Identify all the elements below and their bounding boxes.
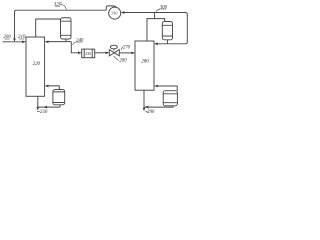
svg-text:220: 220 [33, 62, 41, 67]
condenser vessel (left) [61, 18, 72, 39]
wire reboiler vapor return to column 220 [48, 86, 59, 90]
node liquid arrow (left) [43, 106, 47, 109]
node feed arrow into column 220 [22, 41, 26, 44]
svg-text:290: 290 [147, 110, 155, 115]
leader for 270 [121, 47, 123, 51]
leader for 240 [73, 42, 77, 45]
svg-text:240: 240 [76, 38, 84, 43]
wire reboiler vapor return to column 280 [158, 86, 178, 91]
node arrow into column 280 [131, 52, 135, 55]
node arrow into feed junction [13, 38, 16, 41]
node reflux arrow into column 220 [45, 41, 49, 44]
leader for 290 [145, 110, 148, 113]
reboiler vessel (left) [53, 90, 65, 105]
wire bottoms line from column 220 [37, 96, 39, 107]
node reflux arrow into column 280 [154, 43, 158, 46]
svg-text:200: 200 [3, 35, 11, 40]
leader for 300 [156, 9, 160, 12]
pump 310 [109, 7, 121, 19]
wire condenser bottom stub [65, 39, 67, 42]
svg-text:250: 250 [85, 52, 91, 56]
svg-text:260: 260 [119, 59, 127, 64]
node arrow into heater 250 [78, 52, 82, 55]
svg-text:320: 320 [54, 2, 62, 7]
node arrow into valve 260 [106, 52, 110, 55]
wire pump discharge line 320 [17, 9, 107, 11]
node bottoms product arrow 290 [143, 108, 146, 111]
wire recycle downcomer 320 [15, 10, 17, 39]
node bottoms product arrow 230 [37, 107, 40, 110]
wire feed line 200 [3, 41, 23, 43]
condenser vessel (right) [162, 22, 172, 40]
node liquid arrow (right) [145, 106, 149, 109]
column 220 [26, 37, 45, 96]
wire overhead line from column 280 [147, 19, 165, 41]
wire bottoms line from column 280 [143, 90, 145, 108]
svg-text:230: 230 [40, 110, 48, 115]
node vapor arrow into column 280 [154, 85, 158, 88]
wire suction riser to pump [124, 13, 187, 44]
svg-text:270: 270 [123, 46, 131, 51]
leader for 320 [60, 5, 66, 10]
reboiler vessel (right) [163, 91, 177, 106]
wire transfer line down to heater [71, 42, 78, 53]
wire heater outlet [95, 52, 106, 54]
leader for 260 [114, 56, 119, 61]
wire reboiler liquid line (left) [38, 105, 60, 107]
leader for 230 [37, 110, 40, 113]
node arrow into pump 310 [121, 11, 125, 14]
column 280 [135, 41, 154, 90]
wire reflux return to column 220 [48, 41, 71, 43]
heater 250 [82, 49, 95, 58]
wire valve outlet to column 280 [119, 52, 132, 54]
wire overhead line from column 220 [36, 19, 61, 37]
svg-text:310: 310 [111, 11, 117, 15]
node vapor arrow into column 220 [45, 85, 49, 88]
wire reflux return to column 280 [158, 43, 186, 45]
svg-text:210: 210 [18, 35, 26, 40]
svg-text:300: 300 [160, 5, 168, 10]
valve actuator 270 [113, 49, 115, 51]
wire reboiler liquid line (right) [144, 106, 173, 107]
wire condenser bottom stub [166, 40, 168, 44]
valve 260 body [109, 50, 114, 56]
svg-text:280: 280 [141, 60, 149, 65]
wire suction drop to condenser line [154, 13, 156, 19]
